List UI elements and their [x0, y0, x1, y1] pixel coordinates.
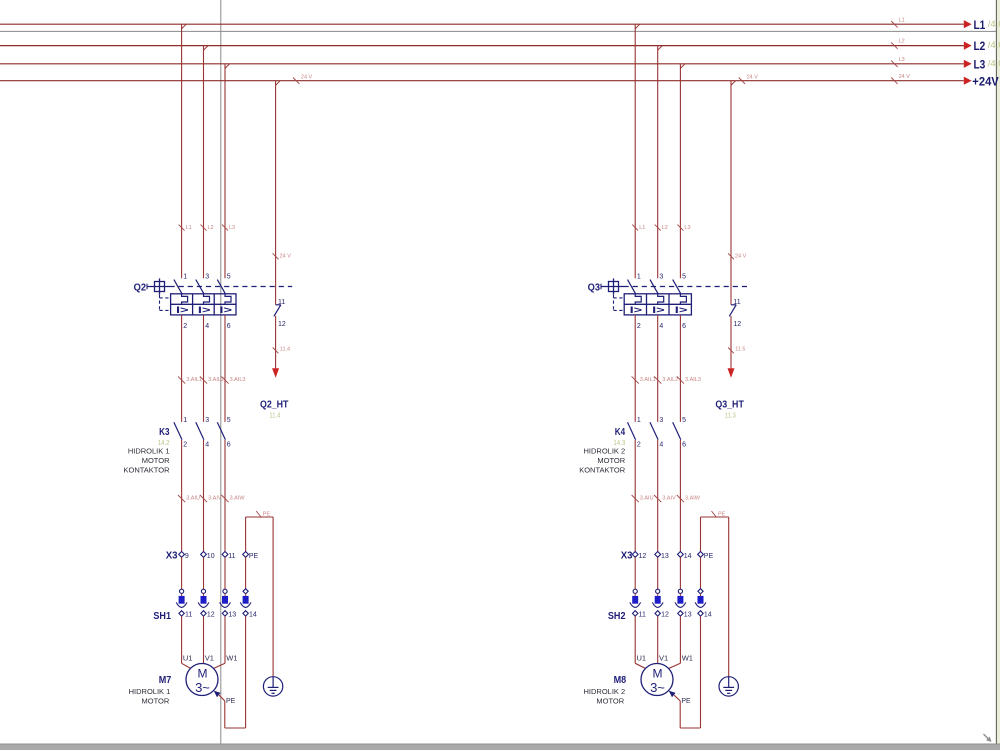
horizontal scrollbar	[0, 744, 1000, 750]
wire name 3.AIL2 (R)	[654, 376, 678, 383]
motor M7 PE arrow	[214, 691, 221, 698]
cable SH1 conductor 13 symbol	[220, 589, 237, 619]
wire W1 SH2 to motor M8	[668, 616, 681, 669]
wire name PE (R)	[712, 511, 726, 518]
svg-text:13: 13	[228, 612, 236, 619]
svg-text:Q3_HT: Q3_HT	[715, 398, 744, 410]
wire aux contact to sheet arrow (R)	[730, 316, 732, 368]
mouse cursor	[984, 734, 992, 742]
Q2 linkage bracket to trip unit	[160, 295, 171, 311]
svg-text:U1: U1	[183, 653, 193, 662]
Q2 thermal release pole 1	[182, 294, 188, 305]
svg-text:HIDROLIK 2: HIDROLIK 2	[584, 687, 626, 696]
svg-text:L2: L2	[899, 39, 905, 45]
svg-text:L2: L2	[662, 225, 668, 231]
wire W1 SH1 to motor M7	[213, 616, 225, 669]
wire name 3.AIW (R)	[677, 495, 701, 502]
svg-text:3.AIV: 3.AIV	[662, 495, 676, 501]
svg-text:MOTOR: MOTOR	[596, 697, 624, 706]
svg-text:3: 3	[659, 417, 663, 424]
svg-text:14.2: 14.2	[158, 438, 170, 447]
wire name 24 V after right bend	[739, 75, 759, 84]
svg-text:3.AIU: 3.AIU	[186, 495, 200, 501]
wire K4:2 to X3:12	[634, 440, 636, 552]
Q2 mechanical linkage dashed line	[170, 286, 293, 288]
K4 main contact pole 1	[628, 417, 641, 449]
Q3 thermal release pole 1	[635, 294, 641, 305]
wire bus L1	[0, 23, 964, 25]
svg-text:L1: L1	[974, 20, 986, 32]
svg-text:I>: I>	[630, 305, 643, 316]
svg-text:L3: L3	[974, 59, 986, 71]
svg-text:Q3: Q3	[588, 283, 601, 294]
terminal X3:10 (L)	[201, 552, 215, 560]
wire X3:13 to cable SH2 (R)	[657, 557, 659, 589]
svg-text:12: 12	[639, 553, 647, 560]
wire name 11.5 (R)	[728, 347, 745, 354]
Q2 pole contact pin 5	[217, 274, 230, 294]
Q3 manual operator handle	[601, 278, 624, 294]
terminal X3:13 (R)	[655, 552, 669, 560]
wire name 24 V on bus +24V	[891, 74, 910, 84]
wire Q2:4 to K3:3	[203, 315, 205, 422]
terminal X3:PE (R)	[698, 552, 714, 560]
Q3 pole contact pin 3	[650, 274, 663, 294]
Q2 trip unit boxes	[171, 294, 236, 315]
svg-text:PE: PE	[263, 512, 271, 518]
Q2 auxiliary NC contact 11-12	[274, 299, 286, 328]
wire name L3 on bus L3	[891, 57, 905, 67]
cable SH2 conductor 13 symbol	[675, 589, 692, 619]
sheet reference arrow L2	[964, 42, 972, 50]
svg-text:K4: K4	[615, 427, 626, 438]
svg-text:6: 6	[227, 441, 231, 448]
wire name L1 on bus L1	[891, 17, 905, 27]
svg-text:3~: 3~	[195, 680, 210, 695]
svg-text:I>: I>	[652, 305, 665, 316]
svg-text:L3: L3	[684, 225, 690, 231]
Q3 linkage bracket to trip unit	[614, 295, 625, 311]
svg-text:I>: I>	[198, 305, 211, 316]
svg-text:L1: L1	[186, 225, 192, 231]
wire PE from earth to X3:PE (R)	[701, 517, 729, 677]
svg-text:2: 2	[183, 323, 187, 330]
svg-text:1: 1	[637, 417, 641, 424]
svg-text:L3: L3	[899, 57, 905, 63]
wire L2 drop to Q3 pin 3 (R)	[658, 46, 663, 279]
wire U1 SH2 to motor M8	[635, 616, 646, 669]
svg-text:5: 5	[682, 417, 686, 424]
motor M8 symbol	[641, 664, 673, 696]
svg-text:M: M	[653, 667, 663, 681]
svg-text:6: 6	[227, 323, 231, 330]
svg-text:6: 6	[682, 441, 686, 448]
svg-text:3: 3	[659, 274, 663, 281]
wire name 3.AIV (R)	[654, 495, 676, 502]
svg-text:3: 3	[205, 274, 209, 281]
svg-text:SH2: SH2	[608, 611, 626, 622]
svg-text:11: 11	[185, 612, 192, 619]
wire name 24 V after left bend	[293, 75, 313, 84]
svg-text:V1: V1	[205, 653, 214, 662]
wire K4:4 to X3:13	[657, 440, 659, 552]
svg-text:U1: U1	[637, 653, 647, 662]
earth ground symbol (L)	[263, 677, 282, 696]
svg-text:3.AIV: 3.AIV	[208, 495, 222, 501]
svg-text:1: 1	[183, 417, 187, 424]
svg-text:5: 5	[227, 417, 231, 424]
wire name 3.AIU (L)	[178, 495, 200, 502]
wire V1 SH2 to motor M8	[657, 616, 659, 663]
terminal X3:14 (R)	[678, 552, 692, 560]
motor M8 function text	[584, 687, 626, 705]
svg-text:14: 14	[249, 612, 257, 619]
svg-text:1: 1	[183, 274, 187, 281]
Q2 thermal release pole 3	[225, 294, 231, 305]
wire bus L2	[0, 45, 964, 47]
svg-text:W1: W1	[226, 653, 237, 662]
wire name L1 on drop (L)	[179, 225, 192, 231]
svg-text:M: M	[198, 667, 208, 681]
wire bus L3	[0, 63, 964, 65]
wire aux contact to sheet arrow (L)	[275, 316, 277, 368]
wire PE SH2:14 to motor M8 PE	[674, 616, 700, 728]
svg-text:KONTAKTOR: KONTAKTOR	[124, 466, 171, 475]
svg-text:5: 5	[682, 274, 686, 281]
wire X3:11 to cable SH1 (L)	[224, 557, 226, 589]
wire X3:PE to cable SH1 (L)	[245, 557, 247, 589]
svg-text:3.AIL3: 3.AIL3	[230, 377, 246, 383]
svg-text:X3: X3	[166, 551, 178, 562]
svg-text:4: 4	[205, 441, 209, 448]
crosshair cursor horizontal line	[0, 30, 996, 32]
wire name 3.AIL1 (L)	[178, 376, 202, 383]
svg-text:L1: L1	[639, 225, 645, 231]
svg-text:12: 12	[207, 612, 215, 619]
svg-text:4: 4	[205, 323, 209, 330]
terminal X3:12 (R)	[632, 552, 646, 560]
svg-text:L1: L1	[899, 17, 905, 23]
svg-text:3.AIW: 3.AIW	[230, 495, 246, 501]
svg-text:/4.0: /4.0	[988, 58, 1000, 69]
wire name 24 V on drop (L)	[273, 253, 292, 259]
Q3 auxiliary NC contact 11-12	[729, 299, 741, 328]
K3 main contact pole 1	[174, 417, 187, 449]
wire name 3.AIL2 (L)	[200, 376, 224, 383]
wire name 3.AIU (R)	[632, 495, 654, 502]
wire name L2 on drop (L)	[201, 225, 214, 231]
svg-text:12: 12	[661, 612, 669, 619]
wire PE from earth to X3:PE (L)	[246, 517, 274, 677]
wire Q3:6 to K4:5	[679, 315, 681, 422]
svg-text:3.AIL1: 3.AIL1	[186, 377, 202, 383]
svg-text:PE: PE	[718, 512, 726, 518]
cable SH2 conductor 14 symbol	[695, 589, 712, 619]
svg-text:4: 4	[659, 441, 663, 448]
svg-text:L3: L3	[229, 225, 235, 231]
wire name L3 on drop (L)	[222, 225, 235, 231]
cable SH2 conductor 12 symbol	[652, 589, 669, 619]
wire name 3.AIL1 (R)	[632, 376, 656, 383]
sheet reference arrow Q2_HT	[272, 368, 279, 378]
wire L2 drop to Q2 pin 3 (L)	[204, 46, 209, 279]
svg-text:L2: L2	[208, 225, 214, 231]
svg-text:3.AIL2: 3.AIL2	[662, 377, 678, 383]
svg-text:12: 12	[733, 321, 741, 328]
wire L1 drop to Q2 pin 1 (L)	[182, 24, 187, 278]
K3 main contact pole 2	[196, 417, 209, 449]
motor M7 function text	[129, 687, 171, 705]
svg-text:MOTOR: MOTOR	[142, 456, 170, 465]
wire PE SH1:14 to motor M7 PE	[219, 616, 246, 728]
svg-text:K3: K3	[159, 427, 170, 438]
wire X3:10 to cable SH1 (L)	[203, 557, 205, 589]
svg-text:13: 13	[684, 612, 692, 619]
svg-text:I>: I>	[219, 305, 232, 316]
svg-text:2: 2	[183, 441, 187, 448]
wire name 3.AIL3 (L)	[221, 376, 245, 383]
wire name 11.4 (L)	[273, 347, 290, 354]
wire name 3.AIL3 (R)	[677, 376, 701, 383]
svg-text:/4.0: /4.0	[988, 19, 1000, 30]
svg-text:M7: M7	[159, 675, 172, 686]
Q3 thermal release pole 3	[680, 294, 686, 305]
svg-text:3.AIL2: 3.AIL2	[208, 377, 224, 383]
svg-text:PE: PE	[681, 698, 691, 705]
svg-text:2: 2	[637, 441, 641, 448]
svg-text:W1: W1	[682, 653, 693, 662]
svg-text:PE: PE	[226, 698, 236, 705]
wire X3:9 to cable SH1 (L)	[181, 557, 183, 589]
wire name 24 V on drop (R)	[728, 253, 747, 259]
earth ground symbol (R)	[719, 677, 738, 696]
svg-text:10: 10	[207, 553, 215, 560]
svg-text:11: 11	[228, 553, 235, 560]
motor M7 terminal labels U1 V1 W1	[183, 653, 238, 662]
Q2 pole contact pin 1	[174, 274, 187, 294]
wire K3:2 to X3:9	[181, 440, 183, 552]
svg-text:PE: PE	[704, 553, 714, 560]
svg-text:11.5: 11.5	[735, 347, 745, 353]
svg-text:11: 11	[639, 612, 646, 619]
terminal X3:PE (L)	[243, 552, 259, 560]
sheet reference arrow L1	[964, 20, 972, 28]
svg-text:/4.0: /4.0	[988, 40, 1000, 51]
Q2 pole contact pin 3	[196, 274, 209, 294]
Q2 manual operator handle	[147, 278, 170, 294]
Q3 pole contact pin 5	[673, 274, 686, 294]
svg-text:14.3: 14.3	[613, 438, 625, 447]
wire name 3.AIV (L)	[200, 495, 222, 502]
wire name L2 on bus L2	[891, 39, 905, 49]
wire K3:4 to X3:10	[203, 440, 205, 552]
cable SH1 conductor 12 symbol	[198, 589, 215, 619]
wire Q3:4 to K4:3	[657, 315, 659, 422]
svg-text:3.AIW: 3.AIW	[685, 495, 701, 501]
wire +24V drop to Q3 aux contact (R)	[731, 81, 736, 305]
svg-text:MOTOR: MOTOR	[142, 697, 170, 706]
wire L3 drop to Q2 pin 5 (L)	[225, 64, 230, 278]
wire L1 drop to Q3 pin 1 (R)	[635, 24, 640, 278]
svg-text:I>: I>	[176, 305, 189, 316]
svg-text:24 V: 24 V	[735, 253, 747, 259]
svg-text:9: 9	[185, 553, 189, 560]
wire X3:PE to cable SH2 (R)	[700, 557, 702, 589]
svg-text:L2: L2	[974, 41, 986, 53]
svg-text:6: 6	[682, 323, 686, 330]
K4 main contact pole 2	[650, 417, 663, 449]
motor M8 terminal labels U1 V1 W1	[637, 653, 693, 662]
wire Q2:2 to K3:1	[181, 315, 183, 422]
terminal X3:11 (L)	[222, 552, 236, 560]
svg-text:HIDROLIK 1: HIDROLIK 1	[129, 687, 171, 696]
terminal X3:9 (L)	[179, 552, 189, 560]
svg-text:I>: I>	[675, 305, 688, 316]
motor M7 symbol	[186, 664, 218, 696]
crosshair cursor vertical line	[220, 0, 222, 744]
svg-text:11.3: 11.3	[725, 410, 736, 419]
svg-text:3.AIL1: 3.AIL1	[640, 377, 656, 383]
svg-text:KONTAKTOR: KONTAKTOR	[579, 466, 626, 475]
svg-text:3~: 3~	[650, 680, 665, 695]
svg-text:12: 12	[278, 321, 286, 328]
svg-text:V1: V1	[659, 653, 668, 662]
wire U1 SH1 to motor M7	[182, 616, 192, 669]
svg-text:Q2: Q2	[134, 283, 147, 294]
wire name 3.AIW (L)	[221, 495, 245, 502]
svg-text:14: 14	[704, 612, 712, 619]
svg-text:M8: M8	[614, 675, 627, 686]
Q3 mechanical linkage dashed line	[624, 286, 748, 288]
svg-text:24 V: 24 V	[899, 74, 911, 80]
svg-text:24 V: 24 V	[747, 75, 759, 81]
svg-text:14: 14	[684, 553, 692, 560]
wire name PE (L)	[256, 511, 270, 518]
svg-text:HIDROLIK 1: HIDROLIK 1	[128, 447, 170, 456]
sheet reference arrow L3	[964, 60, 972, 68]
Q3 trip unit boxes	[624, 294, 691, 315]
svg-text:24 V: 24 V	[301, 75, 313, 81]
wire X3:12 to cable SH2 (R)	[634, 557, 636, 589]
wire name L1 on drop (R)	[632, 225, 645, 231]
svg-text:3: 3	[205, 417, 209, 424]
svg-text:4: 4	[659, 323, 663, 330]
svg-text:PE: PE	[249, 553, 259, 560]
svg-text:3.AIU: 3.AIU	[640, 495, 654, 501]
wire bus +24V	[0, 80, 964, 82]
contactor K3 function text	[124, 447, 171, 475]
svg-text:2: 2	[637, 323, 641, 330]
wire L3 drop to Q3 pin 5 (R)	[680, 64, 685, 278]
wire name L3 on drop (R)	[677, 225, 690, 231]
wire K4:6 to X3:14	[679, 440, 681, 552]
Q3 pole contact pin 1	[628, 274, 641, 294]
wire X3:14 to cable SH2 (R)	[679, 557, 681, 589]
svg-text:3.AIL3: 3.AIL3	[685, 377, 701, 383]
K4 main contact pole 3	[673, 417, 686, 449]
wire V1 SH1 to motor M7	[203, 616, 205, 663]
sheet reference arrow Q3_HT	[728, 368, 735, 378]
wire +24V drop to Q2 aux contact (L)	[276, 81, 281, 305]
cable SH2 conductor 11 symbol	[630, 589, 646, 619]
Q3 thermal release pole 2	[658, 294, 664, 305]
motor M8 PE arrow	[669, 691, 676, 698]
svg-text:13: 13	[661, 553, 669, 560]
svg-text:Q2_HT: Q2_HT	[260, 398, 289, 410]
K3 main contact pole 3	[217, 417, 230, 449]
contactor K4 function text	[579, 447, 626, 475]
drawing frame right border	[996, 0, 1000, 744]
svg-text:11.4: 11.4	[269, 410, 280, 419]
wire Q3:2 to K4:1	[634, 315, 636, 422]
Q2 thermal release pole 2	[204, 294, 210, 305]
svg-text:X3: X3	[621, 551, 633, 562]
wire name L2 on drop (R)	[655, 225, 668, 231]
svg-text:SH1: SH1	[153, 611, 171, 622]
cable SH1 conductor 14 symbol	[240, 589, 257, 619]
svg-text:24 V: 24 V	[280, 253, 292, 259]
sheet reference arrow +24V	[964, 77, 972, 85]
svg-text:11.4: 11.4	[280, 347, 290, 353]
cable SH1 conductor 11 symbol	[176, 589, 192, 619]
svg-text:+24V: +24V	[972, 76, 999, 88]
wire Q2:6 to K3:5	[224, 315, 226, 422]
svg-text:MOTOR: MOTOR	[597, 456, 625, 465]
wire K3:6 to X3:11	[224, 440, 226, 552]
svg-text:1: 1	[637, 274, 641, 281]
svg-text:HIDROLIK 2: HIDROLIK 2	[584, 447, 626, 456]
svg-text:5: 5	[227, 274, 231, 281]
